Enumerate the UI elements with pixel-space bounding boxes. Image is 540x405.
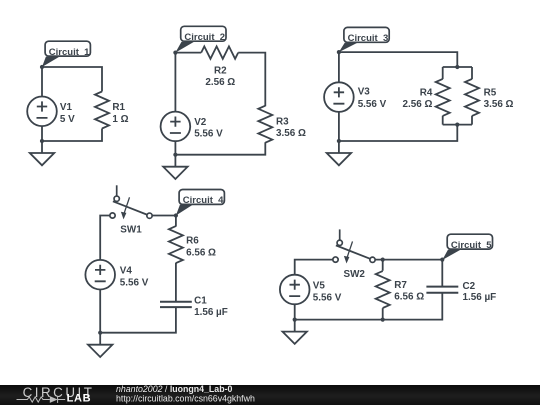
svg-text:R1: R1 [112,102,125,113]
svg-text:1.56 µF: 1.56 µF [463,292,497,303]
svg-text:5.56 V: 5.56 V [358,99,387,110]
svg-text:Circuit_3: Circuit_3 [348,33,389,44]
svg-text:5.56 V: 5.56 V [313,293,342,304]
svg-text:V5: V5 [313,281,326,292]
svg-text:http://circuitlab.com/csn66v4g: http://circuitlab.com/csn66v4gkhfwh [116,394,255,404]
svg-text:2.56 Ω: 2.56 Ω [205,77,235,88]
svg-text:Circuit_2: Circuit_2 [184,32,225,43]
svg-text:3.56 Ω: 3.56 Ω [276,128,306,139]
svg-text:SW1: SW1 [120,224,142,235]
svg-text:Circuit_5: Circuit_5 [451,240,492,251]
svg-text:R5: R5 [484,88,497,99]
svg-text:6.56 Ω: 6.56 Ω [186,247,216,258]
svg-text:1 Ω: 1 Ω [112,114,128,125]
svg-text:V2: V2 [194,117,207,128]
svg-text:SW2: SW2 [344,269,366,280]
svg-text:6.56 Ω: 6.56 Ω [394,291,424,302]
svg-text:5.56 V: 5.56 V [194,129,223,140]
svg-text:5 V: 5 V [60,114,75,125]
svg-text:R7: R7 [394,280,407,291]
svg-text:V1: V1 [60,102,73,113]
svg-text:V4: V4 [120,266,133,277]
svg-text:3.56 Ω: 3.56 Ω [484,99,514,110]
svg-text:1.56 µF: 1.56 µF [194,307,228,318]
svg-text:V3: V3 [358,87,371,98]
svg-text:C2: C2 [463,281,476,292]
svg-text:R3: R3 [276,116,289,127]
svg-text:2.56 Ω: 2.56 Ω [403,99,433,110]
svg-text:nhanto2002 / luongn4_Lab-0: nhanto2002 / luongn4_Lab-0 [116,384,232,394]
svg-text:R2: R2 [214,65,227,76]
svg-text:R4: R4 [420,88,433,99]
svg-text:Circuit_1: Circuit_1 [49,47,90,58]
svg-text:LAB: LAB [67,393,92,405]
svg-text:5.56 V: 5.56 V [120,277,149,288]
svg-text:C1: C1 [194,296,207,307]
svg-text:R6: R6 [186,235,199,246]
svg-text:Circuit_4: Circuit_4 [183,195,224,206]
